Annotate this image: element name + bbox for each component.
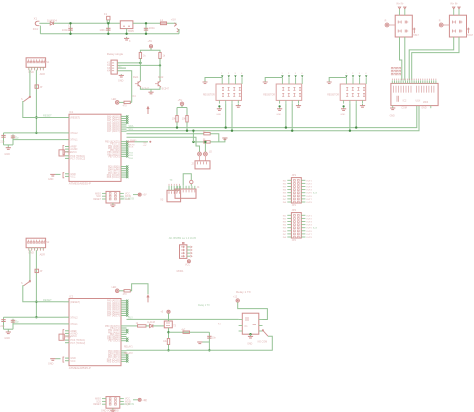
resistor R9 (167, 339, 169, 345)
OK2 internal diode marks (452, 21, 455, 24)
svg-text:DCJ: DCJ (33, 27, 39, 31)
pin header JP1 box (291, 178, 301, 203)
svg-text:22p: 22p (15, 136, 20, 139)
wires LEDs to connector (199, 156, 201, 161)
IC U1 ATMEGA8535 box (69, 114, 121, 181)
DIP switch S2 (26, 238, 45, 248)
OK2 right marks (467, 28, 470, 34)
RN2 ground right (298, 104, 300, 106)
svg-text:COM: COM (401, 107, 406, 109)
RN2 top pins (281, 77, 283, 84)
RN3 wire pin3 to bus (355, 104, 357, 128)
supply arrow GND net (177, 28, 179, 32)
svg-text:NC: NC (119, 66, 123, 68)
svg-text:+12: +12 (233, 296, 238, 299)
resistor R6 on PA6 net (204, 133, 210, 135)
svg-text:+5V: +5V (142, 195, 147, 197)
svg-text:GND: GND (48, 363, 54, 366)
wire R8 to D2 (146, 325, 150, 327)
connector below LEDs (195, 161, 210, 169)
wire XTAL2 net (4, 316, 64, 318)
hatch annotation block (391, 67, 392, 69)
svg-text:OUT7: OUT7 (306, 234, 313, 236)
switch S2b diagonal (24, 281, 30, 286)
svg-text:+5V: +5V (148, 40, 153, 43)
U1 left pin group AREF (65, 146, 69, 148)
svg-text:100n: 100n (149, 26, 156, 30)
wire bottom rail (40, 33, 179, 35)
resistor R8 (138, 325, 147, 327)
wire XTAL2 net (4, 132, 64, 134)
supply arrow into MCU top (147, 107, 149, 114)
connector X3 (167, 190, 181, 202)
svg-text:470: 470 (123, 105, 128, 108)
svg-text:LD: LD (209, 152, 212, 154)
wires VCC to pullup resistors (181, 106, 183, 108)
no-connect marks PA0-PA3 U1 (126, 115, 128, 117)
resistor network RN2 box (276, 84, 302, 100)
wire XTAL1 net (13, 323, 64, 325)
svg-text:VCC: VCC (185, 265, 190, 267)
diode D1 (50, 22, 53, 25)
svg-text:MOD1: MOD1 (177, 270, 185, 273)
svg-text:IN+ IN-: IN+ IN- (450, 3, 458, 6)
svg-text:RESET: RESET (43, 298, 52, 302)
svg-text:ATMEGA8535-P: ATMEGA8535-P (69, 182, 91, 186)
ground left of U2 (55, 358, 60, 360)
wire T3 down (168, 328, 170, 339)
resistor R10 (183, 331, 190, 333)
capacitor C7 (208, 332, 210, 350)
svg-text:MISO_MOSI: MISO_MOSI (121, 404, 134, 406)
ground relay transistors (150, 91, 152, 93)
X5 top mark (182, 242, 185, 244)
svg-text:XTAL2: XTAL2 (70, 316, 78, 319)
svg-text:7805: 7805 (128, 29, 135, 33)
wire LED2 column (204, 142, 206, 152)
svg-text:2803: 2803 (423, 102, 429, 104)
diode D2 (150, 324, 153, 327)
U2 left pin group AREF (65, 330, 69, 332)
U2 right pins PD group (121, 350, 127, 352)
wire jack ground drop (39, 26, 41, 34)
supply arrow +5V (174, 23, 176, 27)
svg-text:PC7 (TOSC2): PC7 (TOSC2) (70, 342, 85, 345)
IC2 internal lower marks (396, 96, 398, 102)
wire R7 right to ground (210, 138, 225, 142)
svg-text:OUT6: OUT6 (306, 196, 313, 198)
svg-text:8MHz: 8MHz (65, 336, 72, 339)
IC2 internal tick row 1 (393, 86, 395, 93)
sensor circle on J4 wire (190, 180, 193, 183)
resistor R3 pullup (186, 116, 188, 123)
voltage regulator IC3 7805 (120, 21, 133, 29)
optocoupler OK1 box (395, 15, 412, 37)
svg-text:AD J6535M rev 1.0 19-05: AD J6535M rev 1.0 19-05 (169, 237, 197, 240)
wire relay contact return to U2 (127, 336, 273, 350)
svg-text:OUT3: OUT3 (306, 222, 313, 224)
ground LED net (224, 137, 226, 139)
RN3 top pins (345, 77, 347, 84)
svg-text:JP2: JP2 (292, 208, 297, 212)
svg-text:PC7 (TOSC2): PC7 (TOSC2) (70, 158, 85, 161)
svg-text:GND: GND (421, 107, 426, 109)
svg-text:22p: 22p (0, 141, 5, 144)
connector X1 DC jack (35, 21, 37, 25)
ground at relay connector (120, 74, 122, 75)
svg-text:Relay 1 TX: Relay 1 TX (236, 290, 251, 294)
svg-text:PA7 (ADC7): PA7 (ADC7) (107, 130, 120, 133)
svg-text:Rel2: Rel2 (158, 75, 164, 79)
svg-text:MISO: MISO (95, 399, 101, 401)
svg-text:OUT8: OUT8 (306, 237, 313, 239)
U1 left pin XTAL2 (64, 132, 70, 134)
wire switch to reset 2 (23, 286, 64, 302)
svg-text:RESISTOR: RESISTOR (203, 94, 215, 96)
lower connector J4 (175, 189, 196, 198)
svg-text:C1: C1 (68, 23, 72, 27)
svg-text:JP1: JP1 (292, 173, 297, 177)
wire U2 to relay coil pin (127, 318, 239, 320)
svg-text:VCC: VCC (70, 176, 75, 179)
svg-text:R: R (385, 19, 387, 22)
relay coil bottom ground (249, 333, 251, 335)
wire DIP S2 pin A down (29, 250, 31, 281)
svg-text:PA7 (ADC7): PA7 (ADC7) (107, 315, 120, 318)
svg-text:ULN: ULN (416, 99, 421, 102)
svg-text:OUT5: OUT5 (306, 228, 313, 230)
svg-text:GND: GND (4, 153, 10, 156)
svg-text:RESET: RESET (43, 114, 52, 118)
jumper on wire B 2 (35, 269, 39, 272)
svg-text:OUT2: OUT2 (306, 218, 313, 220)
supply arrow into MCU top (147, 295, 149, 302)
wire R2 to line1 (176, 122, 178, 128)
RN2 wire pin3 to bus (291, 104, 293, 131)
wire relay pin4 down (117, 71, 131, 103)
relay K1 left pins (239, 319, 243, 321)
relay K1 box (242, 313, 258, 334)
U2 left pin group GND (65, 357, 69, 359)
ISP header SV1 box (106, 191, 120, 203)
svg-text:AVCC: AVCC (70, 151, 77, 154)
wire top rail D1 to regulator (54, 22, 121, 24)
svg-text:OUT4: OUT4 (306, 225, 313, 227)
OK1 left lamp symbol (385, 23, 389, 27)
U2 left pin RESET (64, 301, 70, 303)
inductor L1 (160, 22, 166, 25)
resistor feeding LED (119, 290, 124, 292)
svg-text:OUT5: OUT5 (306, 193, 313, 195)
LED above MCU (115, 101, 119, 105)
svg-text:X1: X1 (34, 17, 38, 21)
svg-text:RESET: RESET (93, 199, 101, 201)
RN2 bottom pins (279, 100, 281, 103)
supply symbol VCC relay (149, 45, 152, 48)
wire DIP S1 pin A down (29, 70, 31, 97)
JP1 pins and labels (287, 179, 291, 181)
X5 supply circle below (187, 260, 190, 263)
U1 right pins PB group (121, 141, 127, 143)
resistor feeding LED (119, 101, 124, 103)
SV1 ground below (112, 203, 114, 205)
U1 right pins PD group (121, 166, 127, 168)
svg-text:XTAL1: XTAL1 (70, 139, 78, 142)
svg-text:A_B: A_B (313, 227, 318, 230)
svg-text:GND: GND (48, 178, 54, 181)
IC2 top pins (391, 80, 393, 83)
svg-text:Relay single: Relay single (107, 52, 124, 56)
wire DIP S2 pin B down (35, 250, 37, 317)
svg-text:GND: GND (4, 337, 10, 340)
capacitor C load 2 (12, 134, 14, 145)
svg-text:OUT7: OUT7 (306, 199, 313, 201)
wire relay pin2 to R5 column (117, 64, 160, 66)
svg-text:JP1: JP1 (292, 204, 297, 207)
svg-text:TX: TX (170, 180, 173, 182)
capacitor C3 (145, 23, 147, 34)
U2 left pin XTAL2 (64, 316, 70, 318)
svg-text:IC1: IC1 (69, 110, 74, 114)
RN1 top pins (221, 77, 223, 84)
svg-text:Rel1: Rel1 (133, 75, 139, 79)
U1 crystal Q1 (59, 150, 64, 156)
svg-text:GND: GND (340, 114, 345, 116)
svg-text:22p: 22p (0, 325, 5, 328)
svg-text:BC547: BC547 (162, 87, 170, 90)
svg-text:(RESET): (RESET) (70, 301, 80, 304)
svg-text:1N4004: 1N4004 (47, 18, 57, 22)
bus wire PA5 long line2 (127, 106, 420, 131)
wire T3 node to cap node (169, 331, 210, 333)
svg-text:OUT2: OUT2 (306, 183, 313, 185)
svg-text:VCC: VCC (70, 360, 75, 363)
U2 right pins PB group (121, 325, 127, 327)
svg-text:ADR: ADR (40, 73, 45, 76)
wire line2 drop to LED net (192, 131, 194, 142)
svg-text:LL4148: LL4148 (147, 322, 155, 324)
wire relay supply to coil (238, 302, 268, 319)
svg-text:LED: LED (112, 98, 117, 101)
svg-text:RESISTOR: RESISTOR (263, 94, 275, 96)
relay K1 right pins (259, 319, 263, 321)
wire regulator ground pin (126, 29, 128, 34)
svg-text:IN+ IN-: IN+ IN- (396, 3, 404, 6)
svg-text:GND: GND (276, 114, 281, 116)
U2 left pins TOSC (65, 339, 69, 341)
RN2 ground left (279, 105, 281, 107)
RN1 wire pin2 to bus (225, 104, 227, 128)
U1 left pin RESET (64, 117, 70, 119)
RN3 supply bend wire (329, 78, 346, 82)
svg-text:JP2: JP2 (292, 239, 297, 242)
svg-text:OUT6: OUT6 (306, 231, 313, 233)
svg-text:RELAY2: RELAY2 (124, 352, 133, 355)
svg-text:PC817: PC817 (412, 35, 420, 37)
net tap on U1 PB0 row (127, 141, 135, 143)
wire VCC to T3 (168, 313, 170, 321)
wire LED resistor to VCC arrow (130, 284, 148, 294)
wire cap to ground branch (200, 341, 210, 343)
wire regulator output (133, 22, 177, 24)
svg-text:470: 470 (123, 293, 128, 296)
resistor network RN1 box (216, 84, 242, 100)
wire relay pin1 to R4 column (117, 62, 140, 64)
wire loop above J4 (183, 174, 191, 186)
LED above MCU (115, 289, 119, 293)
wire R5 to T2 (159, 59, 161, 81)
OK1 internal diode marks (398, 21, 401, 24)
svg-text:JP: JP (40, 270, 43, 273)
relay supply circle (236, 299, 239, 302)
wire R3 to line2 (186, 122, 188, 131)
svg-text:GND: GND (216, 114, 221, 116)
svg-text:PB7 (SCK): PB7 (SCK) (108, 156, 119, 158)
svg-text:OUT1: OUT1 (306, 180, 313, 182)
LED LD1 (198, 152, 202, 156)
svg-text:SCK: SCK (96, 401, 101, 403)
svg-text:Relay 1 TX: Relay 1 TX (198, 304, 210, 307)
svg-text:IC2: IC2 (403, 99, 407, 102)
U1 left pins TOSC (65, 155, 69, 157)
U2 crystal Q2 (59, 334, 64, 340)
ground C7 (199, 341, 201, 343)
svg-text:100n: 100n (99, 28, 106, 32)
wire emitters to ground (140, 87, 160, 89)
svg-text:(RESET): (RESET) (70, 117, 80, 120)
ground crystal caps (7, 330, 9, 332)
U1 left pin XTAL1 (64, 139, 70, 141)
SV3 supply circle (133, 399, 138, 401)
RN3 ground left (343, 105, 345, 107)
svg-text:+5V: +5V (171, 17, 176, 21)
resistor R7 (204, 141, 210, 143)
RN1 bottom pins (218, 100, 220, 103)
svg-text:OUT8: OUT8 (306, 202, 313, 204)
svg-text:+5V: +5V (143, 145, 147, 147)
wire PA6 to resistor pair (127, 133, 204, 135)
bus wire PA4 long line1 (127, 106, 417, 128)
wire cap commons (4, 144, 14, 146)
wire R6 to corner down (210, 134, 219, 142)
svg-text:100n: 100n (62, 28, 69, 32)
svg-text:PD5 (OC1A): PD5 (OC1A) (107, 176, 120, 179)
ground below regulator (126, 37, 128, 39)
LED LD2 (204, 152, 208, 156)
RN2 supply bend wire (265, 78, 282, 82)
ground crystal caps (7, 146, 9, 148)
U1 right pins PA0-PA7 (121, 115, 127, 117)
RN1 ground right (237, 104, 239, 106)
OK1 top pins (399, 8, 401, 15)
RN2 internal marks (282, 87, 284, 90)
RN3 bottom pins (343, 100, 345, 103)
RN1 internal marks (222, 87, 224, 90)
svg-text:OUT3: OUT3 (306, 187, 313, 189)
svg-text:VCC: VCC (125, 193, 130, 195)
wire R4 to T1 (139, 59, 141, 81)
svg-text:4k7: 4k7 (181, 328, 186, 331)
svg-text:GND: GND (118, 79, 124, 82)
transistor box T3 (164, 321, 172, 328)
OK2 left lamp symbol (439, 23, 443, 27)
pin header JP2 box (291, 213, 301, 238)
RN1 supply bend wire (205, 78, 222, 82)
wire OK1 outputs down to IC2 (400, 37, 402, 80)
svg-text:XTAL1: XTAL1 (70, 323, 78, 326)
wire lower LED net (193, 141, 203, 143)
svg-text:AVCC: AVCC (70, 335, 77, 338)
svg-text:GND: GND (28, 71, 34, 74)
U1 left pin group GND (65, 173, 69, 175)
wire PA7 to LED column (127, 137, 200, 152)
svg-text:GND: GND (28, 252, 34, 255)
svg-text:A_B: A_B (313, 192, 318, 195)
IC2 bottom pin gnd (392, 106, 394, 108)
svg-text:SCK: SCK (129, 147, 134, 149)
RN1 ground left (218, 105, 220, 107)
svg-text:R: R (439, 19, 441, 22)
svg-text:RESET: RESET (93, 404, 101, 406)
svg-text:JP: JP (40, 86, 43, 89)
module connector X5 (180, 245, 187, 259)
svg-text:L1: L1 (160, 18, 164, 22)
capacitor C2 (107, 23, 109, 34)
svg-text:GND: GND (247, 344, 252, 346)
wire DIP S1 pin B down (35, 70, 37, 133)
svg-text:XTAL2: XTAL2 (70, 132, 78, 135)
no-connect marks U1 PB and PD pins (126, 141, 128, 143)
ISP header SV3 box (106, 397, 120, 409)
svg-text:OUT1: OUT1 (306, 215, 313, 217)
svg-text:GND: GND (390, 115, 395, 117)
wire VIN top rail (39, 22, 50, 24)
svg-text:22p: 22p (15, 321, 20, 324)
fuse F1 (107, 16, 110, 20)
switch S1b diagonal (24, 97, 30, 102)
svg-text:VCC: VCC (125, 399, 130, 401)
svg-text:PD5 (OC1A): PD5 (OC1A) (107, 360, 120, 363)
supply circle above T3 (167, 310, 170, 313)
capacitor C load 2 (12, 319, 14, 330)
svg-text:PC817: PC817 (466, 35, 474, 37)
svg-text:ATMEGA8535-P: ATMEGA8535-P (69, 366, 91, 370)
wire XTAL1 net (13, 139, 64, 141)
JP2 pins and labels (287, 214, 291, 216)
wire switch to reset 1 (23, 102, 64, 118)
IC U2 ATMEGA8535 box (69, 299, 121, 366)
relay contact arm (263, 330, 269, 336)
RN3 ground right (362, 104, 364, 106)
RN2 wire pin2 to bus (285, 104, 287, 128)
svg-text:8MHz: 8MHz (65, 151, 72, 154)
svg-text:SCK: SCK (96, 196, 101, 198)
supply rail for relay transistors (140, 50, 160, 52)
U2 right pins PA0-PA7 (121, 300, 127, 302)
wire relay pin3 stub (117, 67, 126, 69)
svg-text:RESISTOR: RESISTOR (327, 94, 339, 96)
capacitor C load 1 (3, 133, 5, 145)
no-connect marks U2 right pins (126, 300, 128, 302)
resistor network RN3 box (340, 84, 366, 100)
svg-text:+5V: +5V (178, 99, 183, 102)
connector SV2 relay socket (111, 60, 117, 74)
svg-text:ADR: ADR (40, 253, 45, 256)
capacitor C load 1 (3, 317, 5, 329)
pullup pair VCC symbol (180, 102, 183, 105)
IC2 driver box (391, 83, 438, 105)
svg-text:PB7 (SCK): PB7 (SCK) (108, 341, 119, 343)
